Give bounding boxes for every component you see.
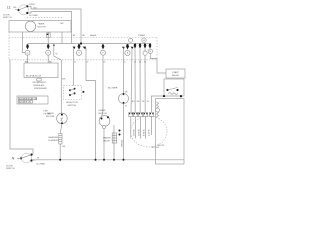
svg-text:SWITCH: SWITCH	[68, 105, 77, 107]
timer cam dashed line	[9, 37, 157, 39]
svg-text:OPEN: OPEN	[29, 4, 36, 6]
svg-text:5A-BK: 5A-BK	[90, 34, 97, 37]
dashed stub right of switch	[27, 16, 62, 18]
svg-text:MOTOR: MOTOR	[99, 113, 108, 115]
cam circle label 2	[129, 38, 133, 42]
detergent dispenser box	[24, 61, 58, 90]
water valve	[103, 125, 117, 159]
svg-text:CLOSED: CLOSED	[36, 164, 45, 166]
main bus L1	[28, 43, 152, 45]
connector on wire x=48	[46, 32, 50, 45]
contact 3 (SPDT to selector)	[72, 44, 95, 159]
svg-text:W: W	[125, 106, 127, 108]
svg-text:SELECTOR: SELECTOR	[66, 102, 78, 104]
svg-text:ELEMENT: ELEMENT	[49, 140, 60, 142]
svg-text:DETERGENT-: DETERGENT-	[33, 82, 47, 84]
wire A: open contact to bus	[28, 6, 81, 43]
door switch S1 (top)	[3, 4, 38, 19]
svg-text:BK-TN: BK-TN	[158, 145, 165, 147]
feed from box to contact 1	[22, 32, 25, 53]
wire B: closed contact down through timer box	[28, 12, 71, 44]
svg-text:VALVE: VALVE	[103, 139, 110, 142]
timer motor box	[9, 21, 71, 32]
svg-text:2-BU-W: 2-BU-W	[133, 129, 135, 136]
svg-text:1-BU-RD: 1-BU-RD	[121, 139, 123, 147]
contact 5 (drain motor)	[101, 44, 106, 116]
svg-text:DISPENSER: DISPENSER	[34, 88, 47, 90]
svg-text:AGITATE ON: AGITATE ON	[19, 101, 31, 104]
svg-text:4-YE-W: 4-YE-W	[143, 129, 145, 136]
contact 7	[134, 44, 137, 113]
svg-text:BLOWER: BLOWER	[108, 88, 118, 90]
svg-text:W: W	[147, 101, 149, 103]
selector switch dashed box	[63, 86, 84, 108]
contact 1 (dispenser left)	[25, 44, 30, 63]
svg-text:RD: RD	[25, 61, 29, 63]
main motor dashed ellipse	[119, 116, 168, 149]
descender tick labels	[74, 61, 76, 64]
wire box bottom to bus at x=62	[61, 32, 63, 44]
svg-text:LINT: LINT	[44, 110, 49, 112]
svg-text:RINSE AID: RINSE AID	[34, 84, 45, 87]
svg-text:DRAIN: DRAIN	[99, 109, 106, 112]
contact 6 (SPDT blower)	[122, 44, 134, 113]
svg-text:START: START	[172, 71, 180, 74]
svg-text:BK-W 5A-W 2-W: BK-W 5A-W 2-W	[26, 75, 41, 78]
left neutral wire	[10, 60, 33, 155]
drain motor	[99, 109, 110, 159]
contact 10 (start relay feed)	[148, 44, 166, 74]
blower	[108, 88, 129, 159]
timer assembly dashed border left	[8, 32, 10, 60]
start relay	[163, 69, 185, 99]
svg-text:AGITATE/SOAK ON: AGITATE/SOAK ON	[19, 97, 37, 100]
tap to drive motor	[53, 44, 61, 114]
svg-text:TIMER: TIMER	[138, 35, 145, 37]
junction wire A	[80, 42, 82, 44]
contact 9	[143, 44, 147, 113]
svg-text:MOTOR: MOTOR	[46, 116, 55, 118]
svg-text:WATER: WATER	[103, 136, 111, 139]
neutral bus	[32, 159, 184, 161]
svg-text:MOTOR: MOTOR	[38, 27, 47, 29]
svg-text:SWITCH: SWITCH	[3, 17, 12, 19]
svg-text:5-GY-W: 5-GY-W	[148, 129, 150, 136]
door switch S2 (bottom)	[6, 153, 45, 170]
svg-text:HEATING: HEATING	[49, 136, 59, 139]
heater big box	[156, 99, 185, 165]
svg-text:L1: L1	[7, 6, 11, 10]
svg-text:BU: BU	[34, 7, 37, 9]
timer motor M	[25, 21, 35, 31]
svg-text:RELAY: RELAY	[172, 74, 180, 77]
node L1	[7, 6, 17, 10]
svg-text:CLOSED: CLOSED	[29, 15, 38, 17]
contact 2 (dispenser right)	[46, 44, 51, 63]
start relay return wire	[152, 96, 164, 113]
drive motor	[46, 113, 67, 133]
legend box	[17, 96, 48, 104]
svg-text:TIMER: TIMER	[38, 24, 45, 26]
heating element	[49, 134, 66, 160]
motor connector block	[129, 112, 154, 116]
svg-text:SWITCH: SWITCH	[6, 168, 15, 170]
cam circle label	[142, 38, 146, 42]
timer dashed border right	[156, 38, 158, 60]
timer dashed border bottom	[9, 59, 157, 61]
svg-text:3-RD-W: 3-RD-W	[138, 129, 140, 136]
svg-text:DRIVE: DRIVE	[47, 113, 54, 115]
contact 8	[139, 44, 142, 113]
